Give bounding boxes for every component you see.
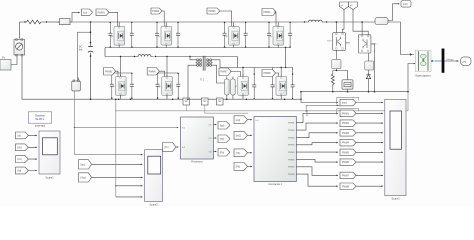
svg-text:Iout: Iout xyxy=(83,11,87,14)
wire riser to tag row1 xyxy=(301,99,338,102)
wire caps row2 bottoms xyxy=(112,98,178,101)
from tag PWM4 xyxy=(262,9,276,16)
svg-text:[Th]: [Th] xyxy=(220,139,224,141)
wire Vdc block output down xyxy=(74,91,76,155)
PV array block Pv xyxy=(0,56,11,71)
wire sensor to Iout tag xyxy=(72,13,80,22)
capacitor C7 xyxy=(252,73,256,99)
wire Q2 top pin xyxy=(165,22,167,26)
wire Q7 bottom pin xyxy=(242,95,244,99)
wire PWM4 to gate Q4 xyxy=(274,12,277,26)
wire PV to meter xyxy=(11,56,17,65)
svg-text:PWM6: PWM6 xyxy=(342,162,350,164)
wire net to scope input1 xyxy=(75,154,143,156)
capacitor C6a xyxy=(156,73,160,99)
wire bus to supercap lower xyxy=(408,64,414,92)
wire transformer secondary top xyxy=(212,60,220,68)
riser row1 to row2r bus xyxy=(285,48,287,68)
wire Q3 bottom pin xyxy=(233,45,235,47)
igbt Q9 xyxy=(327,33,346,51)
capacitor C2b xyxy=(176,22,180,48)
DC bus top wire xyxy=(70,21,375,23)
wire right feed row b xyxy=(307,92,408,117)
igbt Q7 xyxy=(235,75,249,97)
wire pwm out5 xyxy=(296,151,338,153)
voltage measurement branch wire xyxy=(77,32,90,80)
from tag PWM1 xyxy=(96,9,109,16)
svg-text:PWM5: PWM5 xyxy=(105,71,113,73)
wire drop to scope input5 xyxy=(116,196,143,198)
powergui block xyxy=(28,112,51,128)
diode block D1 xyxy=(332,50,341,69)
from tag c3 xyxy=(234,149,248,157)
current sensor block xyxy=(58,19,72,25)
wire PWM2 to gate Q2 xyxy=(162,11,164,26)
from tag t3 xyxy=(340,120,356,127)
from tag m1 xyxy=(79,160,92,169)
capacitor C5a xyxy=(110,73,114,99)
svg-text:PWM2: PWM2 xyxy=(342,123,350,125)
wire c4 to controller xyxy=(248,165,253,167)
svg-text:PWM7: PWM7 xyxy=(342,176,350,178)
from tag s4 xyxy=(16,167,29,174)
subsystem Commande xyxy=(254,116,296,186)
capacitor C4b xyxy=(288,22,292,48)
wire Processeur out2 xyxy=(213,137,216,139)
igbt Q5 xyxy=(112,75,126,97)
from tag c4 xyxy=(234,163,248,171)
wire Q5 bottom pin xyxy=(120,95,122,99)
svg-text:Scope2: Scope2 xyxy=(149,204,158,207)
row2 right bus wire xyxy=(220,57,293,68)
svg-text:[wd]: [wd] xyxy=(236,120,241,122)
svg-text:[Vb]: [Vb] xyxy=(18,147,22,149)
wire transformer primary bottom xyxy=(188,65,196,99)
scope Scope2 center xyxy=(145,150,163,207)
capacitor C1b xyxy=(130,22,134,48)
svg-text:[Iac]: [Iac] xyxy=(81,165,86,167)
from tag t2 xyxy=(340,110,356,117)
node meter-rail xyxy=(90,98,92,100)
wire m1 to scope xyxy=(92,163,143,165)
goto tag o2 xyxy=(218,135,230,143)
diode D3 xyxy=(366,70,370,92)
from tag m2 xyxy=(79,173,92,182)
svg-text:[Vs]: [Vs] xyxy=(18,159,22,161)
node rail joints xyxy=(118,98,286,100)
from tag PWM6 xyxy=(147,68,159,76)
wire Q5 top feed xyxy=(120,57,122,77)
svg-text:[Ph]: [Ph] xyxy=(236,167,240,169)
svg-text:IGBT: IGBT xyxy=(327,41,332,43)
wire Q10 mid drop xyxy=(371,44,375,92)
wire Q6 bottom pin xyxy=(166,95,168,99)
wire loop over t2 xyxy=(337,109,359,115)
wire pwm out7 xyxy=(296,167,338,176)
wire Q8 top pin xyxy=(280,68,282,77)
voltmeter U1 xyxy=(14,39,25,56)
wire Q8 bottom pin xyxy=(280,95,282,99)
wire transformer primary top xyxy=(190,57,196,60)
svg-text:PWM1: PWM1 xyxy=(98,11,106,14)
svg-text:Supercapacitor: Supercapacitor xyxy=(415,75,431,78)
svg-text:PWM3: PWM3 xyxy=(209,11,217,13)
transformer Tr1 xyxy=(195,56,213,82)
wires tags to Scope1 xyxy=(28,135,37,170)
signal drop wire xyxy=(115,99,117,197)
svg-text:[Ph]: [Ph] xyxy=(220,152,224,154)
svg-text:PWM5: PWM5 xyxy=(342,152,350,154)
wire D1 to resistor xyxy=(333,69,337,74)
igbt Q10 xyxy=(358,35,378,53)
from tag PWM5 xyxy=(104,68,116,76)
wire c1 to controller xyxy=(248,119,253,121)
svg-text:[Ia]: [Ia] xyxy=(18,136,22,138)
wire bar to voltage tag xyxy=(444,60,458,62)
from tag c2 xyxy=(234,131,248,139)
svg-text:[out]: [out] xyxy=(403,3,408,6)
from tag s1 xyxy=(16,132,29,139)
subsystem Processeur xyxy=(181,117,214,164)
svg-text:[vs]: [vs] xyxy=(463,60,467,63)
wire PWM7 to gate Q7 xyxy=(231,72,241,77)
goto tag o3 xyxy=(218,149,230,157)
svg-text:Discrete: Discrete xyxy=(35,113,45,117)
from tag t9 xyxy=(340,183,356,190)
wire c3 to controller xyxy=(248,152,253,154)
wire gray link1 xyxy=(116,105,408,111)
svg-text:5e-05 s.: 5e-05 s. xyxy=(35,117,45,121)
from tag t1 xyxy=(340,99,356,106)
wire sensor to supercap xyxy=(388,22,414,55)
wire loop over t1 xyxy=(337,97,359,104)
from tag PWM7 xyxy=(219,68,231,76)
wire Q7 top pin xyxy=(242,68,244,77)
capacitor C3a xyxy=(223,22,227,48)
svg-text:PWM4: PWM4 xyxy=(342,143,350,145)
capacitor C1a xyxy=(108,22,112,48)
svg-text:PWM6: PWM6 xyxy=(149,71,157,73)
goto tag out xyxy=(401,1,411,8)
wire PWM5 to gate Q5 xyxy=(116,71,119,76)
svg-text:PWM4: PWM4 xyxy=(288,145,295,147)
wire pwm out4 xyxy=(296,143,338,145)
wire meter top to bus xyxy=(19,22,21,39)
igbt Q1 xyxy=(111,25,125,47)
wire Processeur out3 xyxy=(213,150,216,152)
wire PWM3 to gate Q3 xyxy=(220,11,232,26)
Vdc measurement block xyxy=(72,78,81,91)
from tag t7 xyxy=(340,159,356,165)
battery B1 xyxy=(342,80,353,93)
svg-text:PWM1: PWM1 xyxy=(342,113,350,115)
svg-text:PWM1: PWM1 xyxy=(288,123,295,125)
diode block D2 xyxy=(365,53,374,70)
svg-text:Processeur: Processeur xyxy=(191,161,203,164)
resistor R1 xyxy=(20,20,48,24)
igbt Q8 xyxy=(273,75,287,97)
wire p2 to Processeur input2 xyxy=(176,146,179,148)
svg-text:PWM5: PWM5 xyxy=(288,152,295,154)
capacitor C4a xyxy=(267,22,271,48)
wire sensor to out tag xyxy=(388,4,400,21)
from tag PWM2 xyxy=(151,8,162,14)
node DC bus tap xyxy=(90,21,92,23)
svg-text:powergui: powergui xyxy=(35,125,46,128)
from tag t4 xyxy=(340,130,356,137)
measurement block VM1 xyxy=(225,77,230,100)
wire g2 to Q10 gate xyxy=(353,10,368,35)
from tag PWM3 xyxy=(207,8,220,14)
svg-text:[Vac]: [Vac] xyxy=(81,178,86,180)
wire Q9 mid stub xyxy=(346,42,350,44)
svg-text:DC: DC xyxy=(79,47,83,49)
goto tag Iout xyxy=(82,9,93,16)
svg-text:[Iw1]: [Iw1] xyxy=(236,135,241,137)
DC link capacitor branch wire xyxy=(90,22,92,99)
from tag t6 xyxy=(340,149,356,156)
svg-text:PWM2: PWM2 xyxy=(288,130,295,132)
from tag s3 xyxy=(16,156,29,163)
from tag c1 xyxy=(234,116,248,124)
from tag PWM8 xyxy=(262,70,276,77)
wire PWM8 to gate Q8 xyxy=(276,73,279,77)
svg-text:IGBT1: IGBT1 xyxy=(372,43,379,45)
row2 DC bus wire xyxy=(105,48,238,57)
from tag t5 xyxy=(340,139,356,146)
capacitor C8b xyxy=(291,73,295,99)
wire pwm out6 xyxy=(296,159,338,162)
wire g1 to Q9 gate xyxy=(343,10,345,33)
svg-text:PWM8: PWM8 xyxy=(342,186,350,188)
left rail wire xyxy=(22,56,301,99)
wire DC bus to Q9 xyxy=(335,22,337,33)
svg-text:PWM4: PWM4 xyxy=(264,12,272,14)
resistor R2 xyxy=(331,74,334,92)
from tag g2 down xyxy=(349,2,358,10)
svg-text:[out]: [out] xyxy=(342,102,347,105)
from tag g1 down xyxy=(340,2,349,10)
svg-text:PWM3: PWM3 xyxy=(288,137,295,139)
from tag t8 xyxy=(340,172,356,179)
svg-text:PWM3: PWM3 xyxy=(342,133,350,135)
scope Scope3 xyxy=(385,99,406,200)
svg-text:PWM6: PWM6 xyxy=(288,159,295,161)
wire feedback to t1 xyxy=(306,105,340,111)
wire DC bus to Q10 xyxy=(361,22,363,35)
wire gray link2 xyxy=(205,105,248,113)
measurement block VM2 xyxy=(231,77,236,100)
wire Processeur out1 xyxy=(213,124,216,126)
svg-text:[wd]: [wd] xyxy=(220,125,225,127)
wire c2 to controller xyxy=(248,134,253,136)
svg-text:Voltage: Voltage xyxy=(446,58,454,61)
inductor L2 xyxy=(134,55,156,58)
svg-text:PWM7: PWM7 xyxy=(221,72,229,74)
capacitor Cdc xyxy=(88,42,93,57)
wire pwm out2 xyxy=(296,123,338,130)
wire Q6 top feed xyxy=(166,57,168,77)
wire m2 to scope xyxy=(92,176,143,178)
scope Scope1 xyxy=(39,131,60,180)
svg-text:[Iw]: [Iw] xyxy=(18,171,22,173)
wire Q2 bottom pin xyxy=(165,45,167,47)
wire Q1 top pin xyxy=(118,22,120,26)
wire caps row2r tops xyxy=(254,68,292,74)
svg-text:Scope1: Scope1 xyxy=(45,177,54,180)
svg-text:PWM8: PWM8 xyxy=(288,174,295,176)
inductor L1 xyxy=(304,20,327,23)
capacitor C8a xyxy=(271,73,275,99)
goto tag V1 xyxy=(461,57,472,66)
battery bus wire xyxy=(301,91,408,93)
svg-text:[Th]: [Th] xyxy=(236,153,240,155)
wire Vdc to Processeur in1 xyxy=(75,126,177,128)
supercapacitor SC1 xyxy=(415,50,434,77)
svg-text:Commande 1: Commande 1 xyxy=(268,184,283,186)
wire pwm out1 xyxy=(296,113,338,122)
ground block G3 xyxy=(217,98,224,105)
row1 bottom bus wire xyxy=(105,47,290,49)
wire pwm out3 xyxy=(296,133,338,138)
capacitor C5b xyxy=(130,73,134,99)
wire supercap to bar xyxy=(435,60,442,62)
bus bar xyxy=(442,49,445,73)
wire Q1 bottom pin xyxy=(118,45,120,47)
svg-text:PWM2: PWM2 xyxy=(152,11,160,13)
DC bus riser wire xyxy=(300,92,302,100)
goto tag o1 xyxy=(218,122,230,130)
wire PWM6 to gate Q6 xyxy=(159,71,164,76)
capacitor C2a xyxy=(155,22,159,48)
wire Q4 top pin xyxy=(277,22,279,26)
ground block G2 xyxy=(202,98,209,105)
wire drop to scope input4 xyxy=(116,185,143,187)
from tag s2 xyxy=(16,144,29,151)
wire caps row2r bottoms xyxy=(254,98,292,100)
wire resistor to I-sensor xyxy=(45,21,60,23)
igbt Q4 xyxy=(270,25,284,47)
igbt Q2 xyxy=(158,25,172,47)
svg-text:Scope3: Scope3 xyxy=(391,198,400,201)
ground block G1 xyxy=(183,98,190,105)
current sensor block right xyxy=(375,18,388,25)
wire battery top feed xyxy=(336,71,347,80)
svg-text:PWM8: PWM8 xyxy=(264,73,272,75)
capacitor C6b xyxy=(176,73,180,99)
wire Q4 bottom pin xyxy=(277,45,279,47)
wire transformer secondary bottom xyxy=(212,65,224,83)
igbt Q3 xyxy=(226,25,240,47)
wires tag column to Scope3 xyxy=(356,103,383,187)
capacitor C3b xyxy=(244,22,248,48)
svg-text:[Im]: [Im] xyxy=(165,147,169,149)
from tag p2 xyxy=(163,143,177,152)
wire pwm out8 xyxy=(296,174,338,186)
igbt Q6 xyxy=(159,75,173,97)
row2 left link rails xyxy=(112,72,178,74)
wire PWM1 to gate Q1 xyxy=(109,12,118,26)
wire Q3 top pin xyxy=(233,22,235,26)
svg-text:PWM7: PWM7 xyxy=(288,167,295,169)
